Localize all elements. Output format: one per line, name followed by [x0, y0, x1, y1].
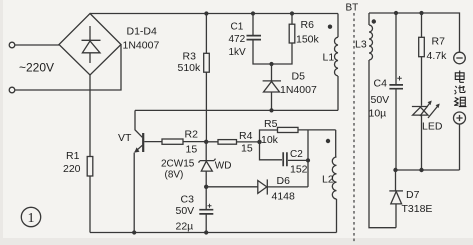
svg-text:R4: R4	[239, 130, 253, 142]
terminal AC bottom	[9, 87, 15, 93]
svg-text:D1-D4: D1-D4	[127, 26, 158, 38]
node dot base	[204, 140, 208, 144]
node dot WD-C3-D6	[204, 185, 208, 189]
capacitor C4	[395, 13, 397, 84]
svg-text:10k: 10k	[261, 134, 279, 146]
polarity dot L2	[326, 139, 330, 143]
wire top rail right	[369, 13, 460, 52]
svg-text:(8V): (8V)	[165, 170, 184, 181]
svg-text:D6: D6	[277, 175, 291, 187]
svg-text:C2: C2	[290, 149, 303, 160]
svg-text:LED: LED	[422, 121, 443, 133]
wire AC bottom	[15, 45, 121, 91]
figure number 1	[21, 207, 40, 226]
svg-text:R6: R6	[301, 19, 315, 31]
resistor R2	[162, 139, 183, 144]
inductor L3	[368, 13, 370, 25]
node dot C3-rail	[204, 230, 208, 234]
polarity dot L1	[328, 25, 332, 29]
svg-text:150k: 150k	[296, 34, 320, 46]
svg-text:BT: BT	[346, 3, 359, 14]
svg-text:220: 220	[63, 163, 81, 175]
inductor L2	[335, 130, 337, 157]
polarity dot L3	[372, 19, 376, 23]
capacitor C2	[260, 142, 283, 160]
svg-text:R2: R2	[185, 129, 199, 141]
wire collector rail y110	[135, 109, 338, 111]
battery minus terminal	[454, 52, 466, 64]
terminal AC top	[9, 42, 15, 48]
svg-text:R5: R5	[264, 118, 278, 130]
node dot rail-R3	[204, 11, 208, 15]
resistor R1	[87, 157, 93, 177]
node dot C4-D7	[393, 168, 397, 172]
svg-text:10µ: 10µ	[369, 108, 387, 120]
svg-text:22µ: 22µ	[176, 221, 194, 233]
resistor R6	[291, 14, 293, 25]
node dot C1-R6-D5	[269, 62, 273, 66]
wire bottom rail	[90, 232, 337, 234]
label battery pack	[454, 71, 466, 107]
svg-text:1: 1	[28, 211, 35, 226]
svg-text:152: 152	[290, 164, 308, 176]
svg-text:1kV: 1kV	[229, 47, 247, 58]
svg-text:510k: 510k	[178, 62, 202, 74]
svg-text:D5: D5	[292, 71, 306, 83]
resistor R5	[260, 130, 278, 142]
bridge rectifier D1-D4	[59, 14, 121, 76]
node dot rail-R7	[419, 11, 423, 15]
svg-text:D7: D7	[406, 189, 420, 201]
node dot D5-y110	[269, 108, 273, 112]
resistor R7	[421, 13, 423, 37]
svg-text:~220V: ~220V	[19, 61, 54, 75]
capacitor C1	[252, 14, 254, 36]
svg-text:C3: C3	[181, 194, 195, 206]
svg-text:4148: 4148	[272, 191, 296, 203]
inductor L1	[337, 14, 339, 38]
resistor R3	[205, 14, 207, 54]
svg-text:50V: 50V	[371, 94, 390, 106]
svg-text:C1: C1	[231, 22, 244, 33]
svg-text:L2: L2	[322, 174, 334, 186]
node dot rail-C4	[394, 11, 398, 15]
wire AC top to bridge	[15, 44, 59, 46]
svg-text:C4: C4	[374, 78, 388, 90]
svg-text:2CW15: 2CW15	[161, 159, 195, 170]
wire top rail	[90, 13, 338, 15]
LED	[412, 106, 428, 108]
node dot R4-R5-C2	[257, 140, 261, 144]
svg-text:WD: WD	[215, 161, 232, 172]
node dot rail-R6	[290, 11, 294, 15]
diode D6	[206, 186, 258, 188]
svg-text:T318E: T318E	[402, 203, 433, 215]
BT dashed line	[353, 13, 355, 243]
wire bridge bottom to R1	[89, 75, 91, 157]
node dot emitter-rail	[132, 230, 136, 234]
svg-text:R3: R3	[183, 51, 197, 63]
svg-text:R7: R7	[432, 36, 446, 48]
svg-text:R1: R1	[66, 150, 80, 162]
svg-text:15: 15	[241, 143, 253, 155]
diode D7	[395, 170, 397, 191]
svg-text:L1: L1	[323, 52, 335, 64]
node dot C2 right	[306, 158, 310, 162]
wire R5 tap down	[307, 130, 309, 187]
svg-text:472: 472	[229, 34, 246, 45]
svg-text:1N4007: 1N4007	[123, 40, 160, 52]
svg-text:4.7k: 4.7k	[427, 50, 448, 62]
capacitor C3	[205, 187, 207, 209]
diode D5	[271, 64, 273, 81]
wire plus line	[396, 169, 460, 171]
svg-text:15: 15	[186, 144, 198, 156]
wire R1 to bottom rail	[89, 176, 91, 233]
transistor VT	[135, 110, 142, 137]
battery plus terminal	[454, 112, 466, 124]
svg-text:VT: VT	[118, 132, 132, 144]
resistor R4	[206, 141, 218, 143]
node dot rail-C1	[251, 11, 255, 15]
node dot LED-line	[419, 168, 423, 172]
svg-text:50V: 50V	[176, 205, 195, 217]
zener WD	[205, 142, 207, 161]
svg-text:1N4007: 1N4007	[280, 84, 317, 96]
svg-text:L3: L3	[355, 39, 367, 51]
